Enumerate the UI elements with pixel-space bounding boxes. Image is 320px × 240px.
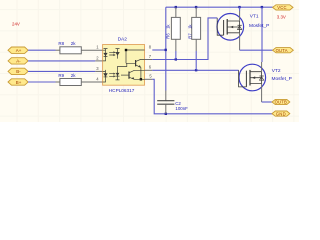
junction R1 bottom (175, 58, 177, 60)
gate entry (217, 18, 223, 35)
wire B- to pin3 (28, 70, 95, 72)
DA2 ch2 photodiode (116, 63, 127, 80)
flag B+ (8, 79, 28, 85)
svg-text:OUTA: OUTA (276, 48, 288, 53)
svg-text:A-: A- (16, 59, 21, 64)
wire pin5 to GND rail (152, 79, 272, 114)
svg-text:R6: R6 (165, 33, 170, 39)
svg-text:100nF: 100nF (175, 106, 188, 111)
wire pin5 stub (145, 78, 153, 80)
DA2 pin8 internal + dot (126, 50, 145, 63)
stubs (250, 72, 262, 84)
arrow on middle stub (230, 26, 233, 29)
junction R1 top (175, 6, 177, 8)
stubs (227, 21, 239, 33)
flag A+ (8, 47, 28, 53)
pin numbers left (96, 45, 99, 82)
svg-text:R9: R9 (58, 73, 64, 78)
gate bar (223, 20, 225, 35)
gate bar (245, 71, 247, 87)
svg-text:DA2: DA2 (118, 37, 128, 43)
source lead up (261, 62, 263, 72)
svg-text:24V: 24V (12, 22, 20, 27)
wire pin6 net to VT2 gate (152, 69, 238, 71)
svg-text:GND: GND (276, 111, 286, 116)
channel bar (249, 70, 251, 86)
flag VCC (273, 5, 293, 10)
svg-text:R7: R7 (188, 33, 193, 39)
resistor R6 (vertical) (175, 7, 177, 17)
junction VT2 source top (261, 6, 263, 8)
junction R2 top (195, 6, 197, 8)
lead R8 right to pin1 (81, 49, 102, 51)
drain lead down (261, 84, 263, 103)
body diode (261, 72, 263, 84)
wire OUTA (240, 49, 273, 51)
flag OUTA (273, 48, 294, 53)
svg-text:2k: 2k (71, 41, 77, 46)
transistor VT2 (Mosfet_P) (239, 62, 266, 102)
op-amp U1 : optocoupler DA2 box (103, 45, 145, 86)
wire pin7 stub (145, 59, 153, 61)
resistor R7 (vertical) (195, 7, 197, 17)
wire VCC rail y=7.2 (166, 6, 273, 8)
resistor R8 (60, 47, 81, 54)
wire VCC to VT2 source (261, 7, 263, 62)
body diode (239, 21, 241, 33)
junction R2 bottom (195, 69, 197, 71)
svg-text:B+: B+ (16, 80, 22, 85)
DA2 ch1 photodiode (116, 49, 120, 59)
wire VCC vertical drop x=165.8 (165, 7, 167, 90)
flag OUTB (272, 99, 290, 104)
wire pin7 net to VT1 gate (152, 18, 217, 60)
DA2 ch2 light arrows (109, 74, 113, 77)
svg-text:A+: A+ (16, 48, 22, 53)
junction C2 bottom (165, 113, 167, 115)
svg-text:Mosfet_P: Mosfet_P (272, 76, 292, 82)
drain lead down (239, 33, 241, 50)
source lead up (239, 11, 241, 21)
svg-text:B-: B- (16, 69, 21, 74)
svg-text:Mosfet_P: Mosfet_P (249, 23, 269, 29)
resistor R9 (60, 79, 81, 86)
flag A- (8, 58, 28, 64)
DA2 interior channel 1 LED (103, 49, 108, 61)
capacitor C2 (165, 91, 167, 101)
lead R9 right to pin4 (81, 81, 102, 83)
gate entry (239, 70, 247, 87)
wire A- to pin2 (28, 60, 95, 62)
wire B+ to R9 (28, 81, 55, 83)
junction pin8/VCC (165, 49, 167, 51)
svg-text:HCPL06317: HCPL06317 (109, 88, 135, 93)
svg-text:VT1: VT1 (250, 13, 259, 19)
wire A+ to R8 (28, 49, 55, 51)
arrow on middle stub (252, 76, 255, 79)
svg-text:2k: 2k (71, 73, 77, 78)
flag GND (272, 111, 290, 116)
svg-text:R8: R8 (58, 41, 64, 46)
lead R8 left (56, 49, 60, 51)
junction VT1 source top (238, 6, 240, 8)
channel bar (226, 19, 228, 35)
DA2 interior channel 2 LED (103, 70, 108, 82)
wire OUTB (262, 101, 272, 103)
flag B- (8, 68, 28, 74)
wire pin8 to VCC vertical (152, 49, 166, 51)
svg-text:OUTB: OUTB (275, 100, 287, 105)
DA2 transistor T2 (128, 71, 130, 78)
DA2 transistor T1 (135, 60, 137, 66)
DA2 ch1 light arrows (109, 52, 113, 55)
wire pin6 stub (145, 69, 153, 71)
transistor VT1 (Mosfet_P) (217, 7, 244, 50)
svg-text:VT2: VT2 (272, 68, 281, 74)
pin numbers right (149, 44, 153, 78)
svg-text:3.3V: 3.3V (277, 14, 286, 19)
svg-text:VCC: VCC (277, 5, 287, 10)
